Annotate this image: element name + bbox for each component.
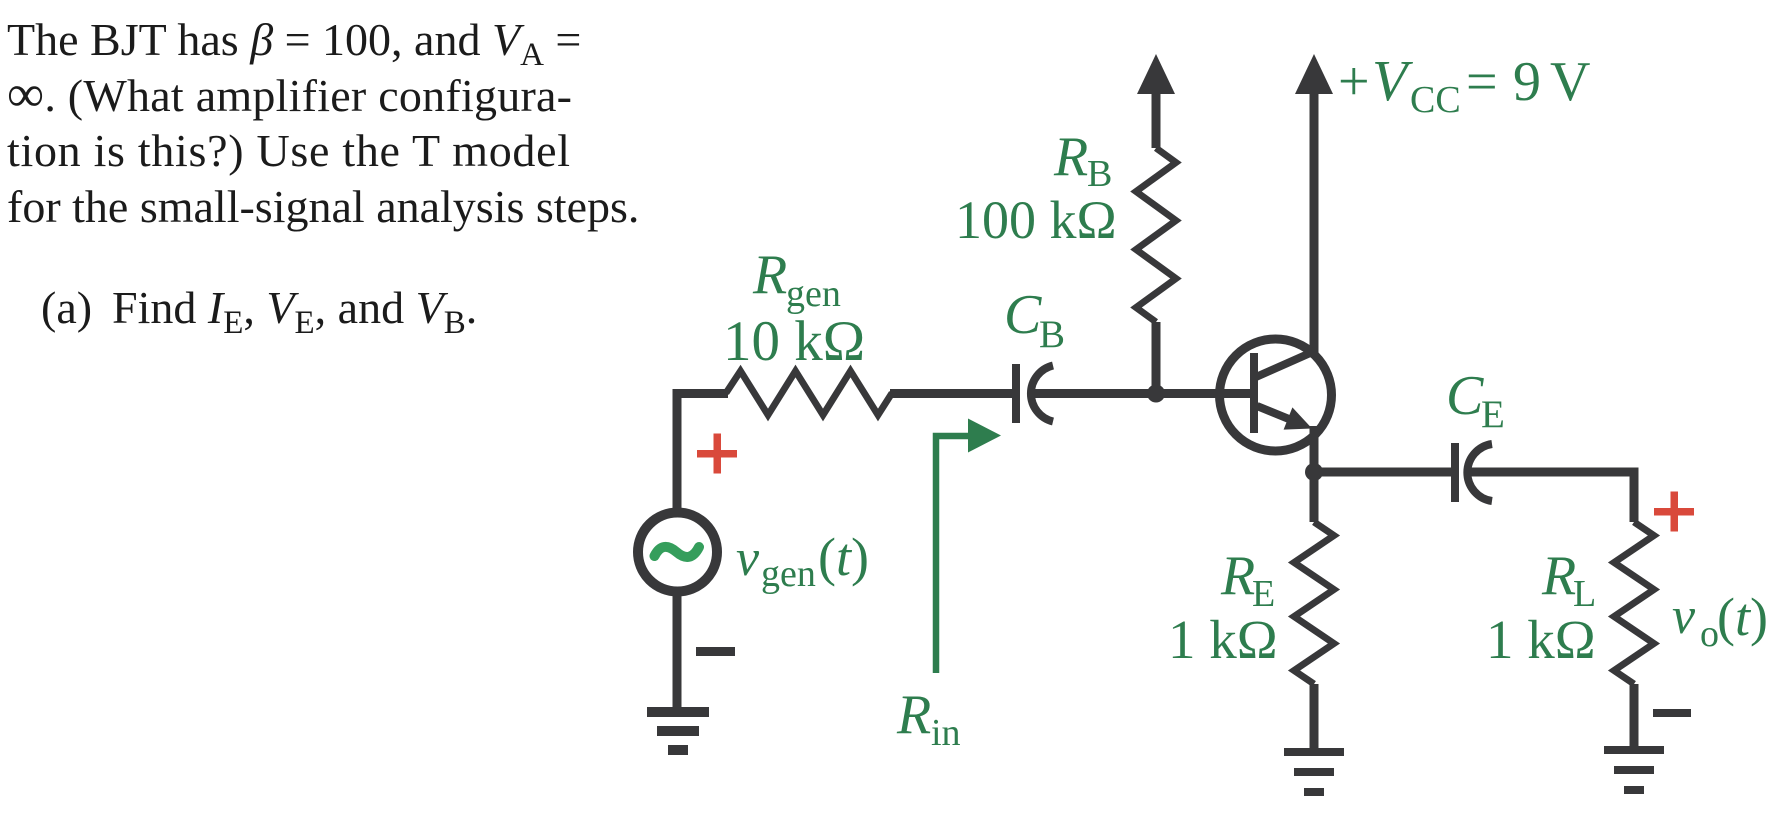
svg-text:v: v xyxy=(1672,588,1696,645)
wire: CB to base xyxy=(1031,389,1254,398)
svg-text:B: B xyxy=(1087,153,1112,195)
svg-text:1 kΩ: 1 kΩ xyxy=(1168,609,1278,670)
problem text line 4 xyxy=(7,181,639,232)
label RE value 1 kOhm xyxy=(1168,609,1278,670)
resistor RB xyxy=(1136,148,1176,322)
label RB xyxy=(1053,126,1112,195)
sine symbol inside source xyxy=(655,547,700,557)
wire: Rgen to CB xyxy=(890,389,1012,398)
resistor Rgen xyxy=(726,371,892,415)
label CB xyxy=(1004,284,1065,356)
svg-text:in: in xyxy=(931,712,961,754)
label RE xyxy=(1220,545,1275,615)
svg-text:E: E xyxy=(1481,393,1505,436)
wire: generator top branch (vertical + horizontal to CB) xyxy=(677,394,728,514)
svg-text:Find IE, VE, and VB.: Find IE, VE, and VB. xyxy=(112,282,477,341)
wire: node E to CE xyxy=(1314,468,1451,477)
problem text line 2 xyxy=(7,66,572,123)
problem text item (a) xyxy=(41,282,477,341)
svg-text:(t): (t) xyxy=(1717,587,1768,647)
wire: source bottom lead xyxy=(673,591,682,711)
node B junction dot xyxy=(1147,385,1165,403)
ground under source xyxy=(647,707,709,755)
minus sign at vo xyxy=(1653,709,1691,717)
svg-text:gen: gen xyxy=(761,553,816,595)
svg-text:9: 9 xyxy=(1513,51,1541,113)
label 10 kOhm xyxy=(723,310,865,373)
plus sign at vo xyxy=(1654,492,1694,532)
problem text line 1 xyxy=(7,14,581,73)
Rin arrow xyxy=(936,419,1001,674)
svg-text:B: B xyxy=(1039,313,1065,356)
svg-text:100 kΩ: 100 kΩ xyxy=(955,190,1117,250)
label CE xyxy=(1446,365,1505,436)
svg-text:C: C xyxy=(1446,365,1484,427)
svg-text:10 kΩ: 10 kΩ xyxy=(723,310,865,373)
label RL xyxy=(1541,545,1596,615)
svg-text:v: v xyxy=(736,530,760,587)
wire: RB top lead xyxy=(1152,88,1161,148)
node E junction dot xyxy=(1305,463,1323,481)
ground under RL xyxy=(1604,746,1664,794)
svg-text:R: R xyxy=(1220,545,1255,607)
svg-text:V: V xyxy=(1372,48,1414,113)
voltage source vgen xyxy=(638,513,717,592)
plus sign at source xyxy=(697,434,737,474)
svg-text:(a): (a) xyxy=(41,282,92,333)
svg-text:(t): (t) xyxy=(818,527,869,587)
arrow VCC xyxy=(1295,54,1333,94)
ground under RE xyxy=(1284,748,1344,796)
svg-text:V: V xyxy=(1550,51,1590,113)
svg-text:R: R xyxy=(896,684,931,746)
svg-text:gen: gen xyxy=(786,273,841,315)
svg-text:for the small-signal analysis: for the small-signal analysis steps. xyxy=(7,181,639,232)
problem text line 3 xyxy=(7,125,570,176)
svg-text:1 kΩ: 1 kΩ xyxy=(1486,609,1596,670)
resistor RL xyxy=(1614,522,1654,684)
label vgen(t) xyxy=(736,527,869,595)
svg-text:R: R xyxy=(1541,545,1576,607)
wire: VCC rail down to collector xyxy=(1310,88,1319,354)
svg-text:R: R xyxy=(752,244,787,306)
label 100 kOhm xyxy=(955,190,1117,250)
svg-text:C: C xyxy=(1004,284,1042,346)
svg-text:R: R xyxy=(1053,126,1088,188)
arrow to VCC above RB xyxy=(1137,54,1175,94)
label Rin xyxy=(896,684,961,754)
label Rgen xyxy=(752,244,841,315)
resistor RE xyxy=(1294,522,1334,684)
svg-text:+: + xyxy=(1338,51,1370,113)
label RL value 1 kOhm xyxy=(1486,609,1596,670)
svg-text:=: = xyxy=(1466,51,1498,113)
label +VCC = 9 V xyxy=(1338,48,1590,121)
svg-text:tion is this?) Use the T mode: tion is this?) Use the T model xyxy=(7,125,570,176)
minus sign at source xyxy=(696,647,735,656)
wire: RE bottom lead xyxy=(1310,684,1319,750)
svg-text:CC: CC xyxy=(1410,79,1461,121)
capacitor CB xyxy=(1012,364,1053,423)
wire: RB bottom lead xyxy=(1152,322,1161,394)
wire: CE to RL branch xyxy=(1470,472,1634,522)
svg-text:The BJT has β = 100, and VA =: The BJT has β = 100, and VA = xyxy=(7,14,581,73)
label vo(t) xyxy=(1672,587,1768,655)
transistor Q1 xyxy=(1220,339,1332,451)
capacitor CE xyxy=(1451,443,1492,502)
wire: RL bottom lead xyxy=(1630,684,1639,750)
svg-text:∞. (What amplifier configura-: ∞. (What amplifier configura- xyxy=(7,66,572,123)
wire: emitter down to node E xyxy=(1310,426,1319,522)
